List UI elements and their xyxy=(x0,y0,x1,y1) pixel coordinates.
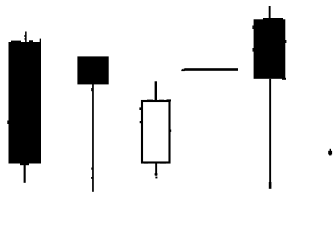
candlestick 1 lower wick xyxy=(20,163,29,183)
horizontal dash line xyxy=(181,68,238,71)
candlestick 4 upper wick xyxy=(269,6,271,19)
candlestick 3 lower wick xyxy=(155,163,158,178)
candlestick 3 upper wick xyxy=(155,81,157,101)
stray ink dot xyxy=(328,149,332,156)
candlestick 3 body (hollow/white) xyxy=(139,99,171,163)
candlestick 1 upper wick xyxy=(24,32,26,43)
candlestick 2 body (black) xyxy=(77,56,108,84)
candlestick 4 body (black) xyxy=(252,18,286,80)
candlestick 2 lower wick xyxy=(91,84,94,192)
candlestick 1 body (black) xyxy=(7,39,41,164)
candlestick 4 lower wick xyxy=(269,79,272,189)
